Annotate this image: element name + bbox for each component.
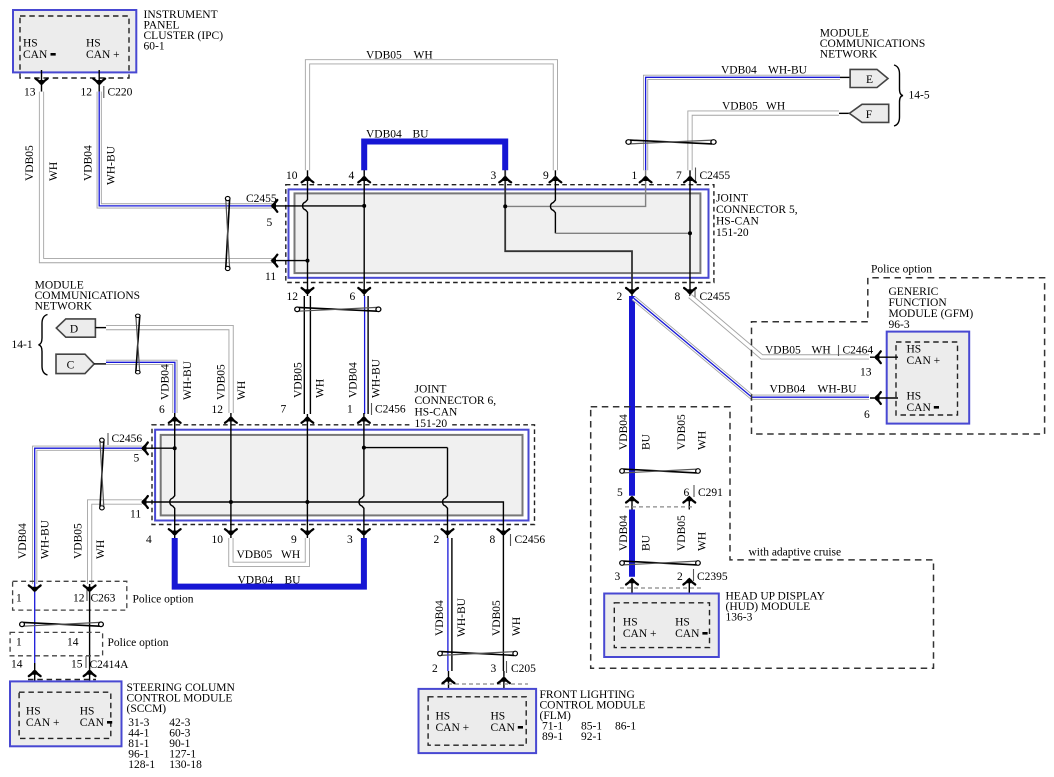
svg-text:VDB04: VDB04 (83, 145, 95, 181)
connector C205 pin labels (432, 661, 536, 675)
svg-text:VDB04: VDB04 (618, 515, 630, 551)
arrows IPC pins C220 (36, 79, 48, 86)
wire VDB05 WH connector D to JC6 pin12 (106, 328, 231, 413)
svg-text:VDB05: VDB05 (676, 515, 688, 551)
twisted pair symbol HUD upper (620, 469, 701, 474)
svg-text:with adaptive cruise: with adaptive cruise (749, 547, 842, 559)
svg-text:VDB05: VDB05 (24, 145, 36, 181)
svg-text:CAN: CAN (23, 49, 48, 61)
JC6 internal bus: pin 12 vertical (230, 413, 232, 538)
JC6 internal bus: pin 5 horizontal (143, 447, 175, 449)
svg-text:VDB05: VDB05 (676, 414, 688, 450)
svg-text:C2464: C2464 (843, 345, 874, 357)
svg-text:3: 3 (491, 170, 497, 182)
svg-text:14-5: 14-5 (909, 90, 930, 102)
twisted pair symbol JC5-JC6 wires (295, 307, 381, 312)
svg-text:BU: BU (413, 129, 430, 141)
brace 14-5 (894, 65, 903, 126)
label JC5 title (716, 193, 798, 240)
svg-text:13: 13 (860, 367, 872, 379)
connector C2414A pin labels (11, 656, 129, 671)
svg-text:7: 7 (676, 170, 682, 182)
svg-text:HS: HS (907, 391, 922, 403)
label HUD title (726, 591, 826, 624)
svg-text:15: 15 (71, 659, 83, 671)
wire VDB05 WH loop JC6 pin10 to pin9 (231, 538, 308, 564)
arrows FLM pins C205 (443, 676, 455, 683)
wire WH C263 pin12 to SCCM (89, 584, 91, 663)
svg-text:CAN +: CAN + (623, 628, 657, 640)
svg-text:11: 11 (130, 509, 141, 521)
wire VDB04 WH-BU diagonal to GFM pin6 (634, 298, 870, 397)
JC5 internal bus: vertical pin 10-12 with hop (303, 166, 308, 296)
svg-text:VDB04: VDB04 (17, 523, 29, 559)
label VDB05 WH C2464 (765, 345, 873, 357)
svg-text:CAN +: CAN + (436, 722, 470, 734)
svg-text:VDB05: VDB05 (73, 523, 85, 559)
svg-text:(SCCM): (SCCM) (127, 703, 167, 715)
IPC pin 12 stem (98, 70, 100, 92)
svg-text:HS: HS (26, 706, 41, 718)
svg-text:4: 4 (146, 534, 152, 546)
label SCCM title (127, 682, 236, 771)
svg-text:C2456: C2456 (112, 433, 143, 445)
svg-text:2: 2 (617, 291, 623, 303)
svg-text:6: 6 (159, 404, 165, 416)
svg-text:VDB04: VDB04 (434, 600, 446, 636)
JC6 internal bus: pin 11 horizontal to pin 8 (143, 502, 503, 538)
svg-text:1: 1 (16, 637, 22, 649)
svg-text:86-1: 86-1 (615, 721, 636, 733)
connector D stub wire (95, 327, 106, 329)
JC5 internal bus: pin 9 horizontal to pin 7 (555, 232, 690, 234)
svg-text:7: 7 (281, 404, 287, 416)
svg-text:WH: WH (48, 162, 60, 181)
svg-text:2: 2 (677, 571, 683, 583)
svg-text:3: 3 (347, 534, 353, 546)
IPC pin 13 stem (41, 70, 43, 92)
label VDB04 WH-BU GFM (770, 384, 858, 396)
svg-text:151-20: 151-20 (415, 418, 448, 430)
connector D (56, 319, 95, 337)
arrows C2395 pins (626, 577, 638, 584)
arrows JC5 top pins (302, 175, 314, 182)
connector E (850, 69, 888, 87)
JC5 internal bus: pin 11 horizontal (272, 260, 308, 262)
label VDB04 BU vertical HUD upper (618, 414, 653, 450)
svg-text:WH-BU: WH-BU (40, 519, 52, 559)
junction dot JC6 pin7/pin11 (305, 500, 309, 504)
svg-text:WH-BU: WH-BU (456, 597, 468, 637)
svg-text:CAN: CAN (675, 628, 700, 640)
GFM police option dashed region (752, 278, 1045, 434)
svg-text:8: 8 (675, 291, 681, 303)
svg-text:WH: WH (315, 379, 327, 398)
twisted pair symbol HUD lower (620, 561, 701, 566)
svg-text:HS: HS (436, 711, 451, 723)
JC6 internal bus: pin 6-4 vertical with hop (170, 413, 175, 538)
svg-text:C220: C220 (108, 87, 133, 99)
junction dot JC5 pin9/pin7 (688, 231, 692, 235)
svg-text:C2414A: C2414A (90, 659, 130, 671)
svg-text:CONNECTOR 5,: CONNECTOR 5, (716, 204, 798, 216)
svg-text:E: E (866, 74, 873, 86)
module SCCM box (10, 681, 122, 746)
svg-text:VDB05: VDB05 (491, 600, 503, 636)
svg-text:VDB04: VDB04 (160, 364, 172, 400)
svg-text:VDB04: VDB04 (721, 65, 757, 77)
svg-text:C2456: C2456 (375, 404, 406, 416)
label JC6 title backing (413, 406, 450, 428)
svg-text:VDB04: VDB04 (348, 362, 360, 398)
svg-text:CAN: CAN (491, 722, 516, 734)
arrows C263 pins (29, 586, 41, 593)
svg-text:128-1: 128-1 (128, 759, 155, 771)
svg-text:13: 13 (24, 87, 36, 99)
svg-text:VDB04: VDB04 (770, 384, 806, 396)
wire BU C263 pin1 to SCCM (34, 584, 36, 663)
svg-text:HS: HS (86, 38, 101, 50)
arrows JC5 bottom pins (302, 288, 314, 295)
FLM pin stems (449, 671, 504, 697)
JC5 internal bus: pin 7-8 vertical (689, 166, 691, 296)
svg-text:C2456: C2456 (515, 534, 546, 546)
junction dot JC5 pin10/pin11 (306, 259, 310, 263)
svg-text:HS: HS (907, 344, 922, 356)
wire VDB04 BU C291 to C2395 (629, 510, 635, 577)
svg-text:WH: WH (697, 431, 709, 450)
label GFM title (889, 286, 974, 331)
wire VDB04 WH-BU JC6 pin2 to FLM (448, 538, 452, 671)
svg-text:WH: WH (766, 101, 785, 113)
label VDB05 WH vertical HUD lower (676, 515, 709, 551)
wire VDB05 WH loop JC5 pin10 to pin9 (308, 62, 556, 171)
svg-text:136-3: 136-3 (726, 612, 753, 624)
svg-text:6: 6 (350, 291, 356, 303)
svg-text:VDB04: VDB04 (238, 575, 274, 587)
joint connector 6 JC6 (152, 425, 535, 525)
twisted pair symbol FLM wires (438, 651, 518, 656)
svg-text:NETWORK: NETWORK (820, 49, 878, 61)
arrows JC5 left pins (270, 200, 277, 212)
svg-text:WH: WH (511, 617, 523, 636)
SCCM connector dashed line (28, 679, 96, 681)
svg-text:BU: BU (641, 534, 653, 551)
svg-text:WH-BU: WH-BU (371, 358, 383, 398)
label JC6 title (415, 384, 497, 431)
module HUD box (604, 594, 719, 658)
svg-text:JOINT: JOINT (716, 193, 748, 205)
svg-text:WH: WH (281, 549, 300, 561)
wire VDB04 WH-BU JC6 pin5 to C263 pin1 (35, 448, 142, 584)
twisted pair symbol below C263 (20, 622, 104, 627)
connector F stub wire (839, 112, 849, 114)
svg-text:F: F (866, 109, 872, 121)
police option box 2 (10, 632, 103, 655)
junction dot JC5 pin3/pin1 (503, 204, 507, 208)
arrows SCCM pins C2414A (29, 669, 41, 676)
junction dot JC6 pin1/pin2 (362, 446, 366, 450)
svg-text:VDB05: VDB05 (216, 364, 228, 400)
svg-text:HS: HS (80, 706, 95, 718)
svg-text:5: 5 (134, 453, 140, 465)
svg-text:CAN: CAN (80, 717, 105, 729)
svg-text:HS: HS (623, 617, 638, 629)
svg-text:3: 3 (491, 663, 497, 675)
connector F (849, 104, 888, 122)
svg-text:11: 11 (265, 271, 276, 283)
label IPC title (144, 9, 224, 53)
svg-text:1: 1 (632, 170, 638, 182)
FLM connector dashed line (441, 683, 528, 685)
svg-text:130-18: 130-18 (169, 759, 202, 771)
svg-text:2: 2 (434, 534, 440, 546)
JC6 internal bus: pin 1 to pin 2 horizontal (364, 447, 448, 449)
wire VDB05 WH diagonal JC5 pin8 to GFM pin13 (690, 296, 869, 357)
label VDB04 BU loop (366, 129, 429, 141)
svg-text:VDB05: VDB05 (722, 101, 758, 113)
connector C220 pin labels (24, 86, 133, 99)
twisted pair symbol on D/C wires (136, 314, 141, 374)
svg-text:10: 10 (212, 534, 224, 546)
connector C2395 pin labels (615, 569, 728, 583)
wire VDB05 WH from IPC pin 13 to JC5 pin 11 (42, 92, 273, 261)
connector E stub wire (840, 76, 850, 78)
svg-text:VDB05: VDB05 (765, 345, 801, 357)
svg-text:WH: WH (95, 540, 107, 559)
C291 pin stems (632, 496, 689, 510)
JC5 bottom pin labels C2455 (287, 290, 731, 303)
label module communications network right (820, 28, 925, 61)
wire VDB04 WH-BU JC5 pin6 to JC6 pin1 (365, 296, 369, 414)
svg-text:BU: BU (641, 433, 653, 450)
svg-text:14: 14 (11, 659, 23, 671)
twisted pair symbol on E/F wires (626, 140, 716, 145)
svg-text:WH: WH (236, 381, 248, 400)
svg-text:VDB05: VDB05 (366, 50, 402, 62)
C2395 connector dashed line (620, 587, 702, 589)
label VDB05 WH vertical HUD upper (676, 414, 709, 450)
svg-text:14: 14 (67, 637, 79, 649)
SCCM pin stems (35, 663, 90, 692)
svg-text:12: 12 (73, 593, 85, 605)
svg-text:WH-BU: WH-BU (106, 145, 118, 185)
svg-text:10: 10 (286, 170, 298, 182)
svg-text:C263: C263 (91, 593, 116, 605)
svg-text:VDB04: VDB04 (366, 129, 402, 141)
module communications network left label (35, 280, 140, 313)
svg-text:D: D (70, 324, 78, 336)
wire VDB05 WH JC6 pin8 to FLM (502, 538, 504, 671)
arrows GFM pins (874, 351, 881, 363)
connector C stub wire (94, 363, 106, 365)
svg-text:HS: HS (675, 617, 690, 629)
svg-text:CAN: CAN (907, 402, 932, 414)
label VDB04 BU vertical HUD lower (618, 515, 653, 551)
JC5 left pin labels (246, 193, 277, 283)
wire VDB04 BU loop JC6 pin4 to pin3 (175, 538, 364, 587)
svg-text:C2455: C2455 (246, 193, 277, 205)
with adaptive cruise dashed region (591, 407, 934, 668)
svg-text:Police option: Police option (133, 594, 194, 606)
C291 connector dashed line (625, 506, 695, 508)
svg-text:WH-BU: WH-BU (818, 384, 858, 396)
svg-text:4: 4 (349, 170, 355, 182)
svg-text:NETWORK: NETWORK (35, 301, 93, 313)
svg-text:WH: WH (812, 345, 831, 357)
svg-text:JOINT: JOINT (415, 384, 447, 396)
brace 14-1 (39, 315, 48, 376)
svg-text:12: 12 (81, 87, 93, 99)
svg-text:1: 1 (347, 404, 353, 416)
twisted pair symbol near JC5 left (225, 196, 230, 270)
svg-text:5: 5 (267, 217, 273, 229)
svg-text:CAN +: CAN + (86, 49, 120, 61)
wire VDB05 WH JC5 pin12 to JC6 pin7 (304, 296, 310, 414)
svg-text:HS: HS (491, 711, 506, 723)
svg-text:WH-BU: WH-BU (768, 65, 808, 77)
svg-text:8: 8 (490, 534, 496, 546)
module FLM box (419, 689, 537, 753)
joint connector 5 JC5 (286, 185, 714, 283)
svg-text:HS: HS (23, 38, 38, 50)
svg-text:6: 6 (864, 409, 870, 421)
svg-text:C291: C291 (698, 487, 723, 499)
svg-text:VDB04: VDB04 (618, 414, 630, 450)
label VDB05 WH top loop (366, 50, 433, 62)
label VDB05 WH loop JC6 (237, 549, 301, 561)
JC5 internal bus: pin 5 horizontal (272, 205, 364, 207)
svg-text:CONNECTOR 6,: CONNECTOR 6, (415, 395, 497, 407)
svg-text:5: 5 (617, 487, 623, 499)
svg-text:12: 12 (212, 404, 224, 416)
svg-text:151-20: 151-20 (716, 227, 749, 239)
label VDB04 BU loop JC6 (238, 575, 302, 587)
arrows C291 pins (626, 495, 638, 502)
svg-text:CAN +: CAN + (26, 717, 60, 729)
connector C (56, 354, 94, 373)
svg-text:89-1: 89-1 (542, 731, 563, 743)
connector C291 pin labels (617, 485, 723, 499)
svg-text:BU: BU (285, 575, 302, 587)
svg-text:WH-BU: WH-BU (182, 360, 194, 400)
svg-text:1: 1 (16, 593, 22, 605)
svg-text:Police option: Police option (871, 264, 932, 276)
JC6 top pin labels C2456 (159, 403, 406, 416)
JC6 internal bus: pin 7 vertical (306, 414, 308, 538)
wire VDB04 BU loop JC5 pin4 to pin3 (364, 142, 505, 171)
svg-text:C: C (67, 360, 75, 372)
svg-text:VDB05: VDB05 (237, 549, 273, 561)
svg-text:12: 12 (287, 291, 299, 303)
svg-text:60-1: 60-1 (144, 41, 165, 53)
svg-text:3: 3 (615, 571, 621, 583)
svg-text:C2455: C2455 (700, 291, 731, 303)
junction dot JC6 pin12/pin11 (229, 500, 233, 504)
JC5 internal bus: pin 3 to pin 2 route (505, 166, 632, 296)
wire VDB05 WH JC6 pin11 to C263 pin12 (90, 502, 142, 584)
svg-text:96-3: 96-3 (889, 319, 910, 331)
GFM pin stems (870, 357, 898, 398)
svg-text:Police option: Police option (108, 637, 169, 649)
JC6 left pin labels C2456 (108, 433, 142, 521)
svg-text:WH: WH (697, 532, 709, 551)
JC6 bottom pin labels C2456 (146, 534, 545, 546)
JC6 internal bus: pin 2 vertical with hop (443, 448, 448, 538)
JC5 internal bus: vertical pin 4-6 (363, 166, 365, 296)
svg-text:92-1: 92-1 (581, 731, 602, 743)
label VDB04 WH-BU E wire (721, 65, 808, 77)
svg-text:C205: C205 (511, 663, 536, 675)
svg-text:9: 9 (291, 534, 297, 546)
junction dot JC5 pin4/pin5 (362, 204, 366, 208)
arrows JC6 top pins (169, 416, 181, 423)
JC5 internal bus: pin 3 to pin 1 horizontal (505, 166, 645, 206)
wire VDB04 WH-BU from IPC pin 12 to JC5 pin 5 (99, 92, 272, 206)
arrows JC6 left pins (141, 443, 148, 455)
svg-text:9: 9 (543, 170, 549, 182)
svg-text:14-1: 14-1 (12, 339, 33, 351)
JC5 top pin labels C2455 (286, 168, 730, 183)
svg-text:HS-CAN: HS-CAN (716, 216, 760, 228)
svg-text:WH: WH (414, 50, 433, 62)
wire VDB05 WH JC5 pin7 to connector F (690, 113, 839, 170)
svg-text:HS-CAN: HS-CAN (415, 407, 459, 419)
JC6 internal bus: pin 1-3 vertical with hop (359, 413, 364, 538)
svg-text:C2455: C2455 (700, 170, 731, 182)
svg-text:CAN +: CAN + (907, 355, 941, 367)
svg-text:2: 2 (432, 663, 438, 675)
connector C263 police option box (13, 581, 127, 610)
wire VDB04 WH-BU connector C to JC6 pin6 (106, 362, 175, 413)
label FLM title (540, 689, 646, 743)
wire VDB04 BU trunk JC5 pin2 to C291 (629, 296, 635, 496)
wire VDB04 WH-BU JC5 pin1 to connector E (646, 77, 840, 170)
junction dot JC6 pin6/pin5 (173, 446, 177, 450)
arrows JC6 bottom pins (169, 529, 181, 536)
JC5 internal bus: pin 9 vertical with hop to pin 7 (550, 166, 555, 233)
svg-text:C2395: C2395 (697, 571, 728, 583)
twisted pair symbol JC6 left wires (100, 438, 105, 510)
svg-text:VDB05: VDB05 (293, 362, 305, 398)
module IPC box (13, 10, 136, 78)
module GFM box (887, 332, 970, 424)
label VDB05 WH F wire (722, 101, 785, 113)
C2395 pin stems (632, 578, 689, 603)
